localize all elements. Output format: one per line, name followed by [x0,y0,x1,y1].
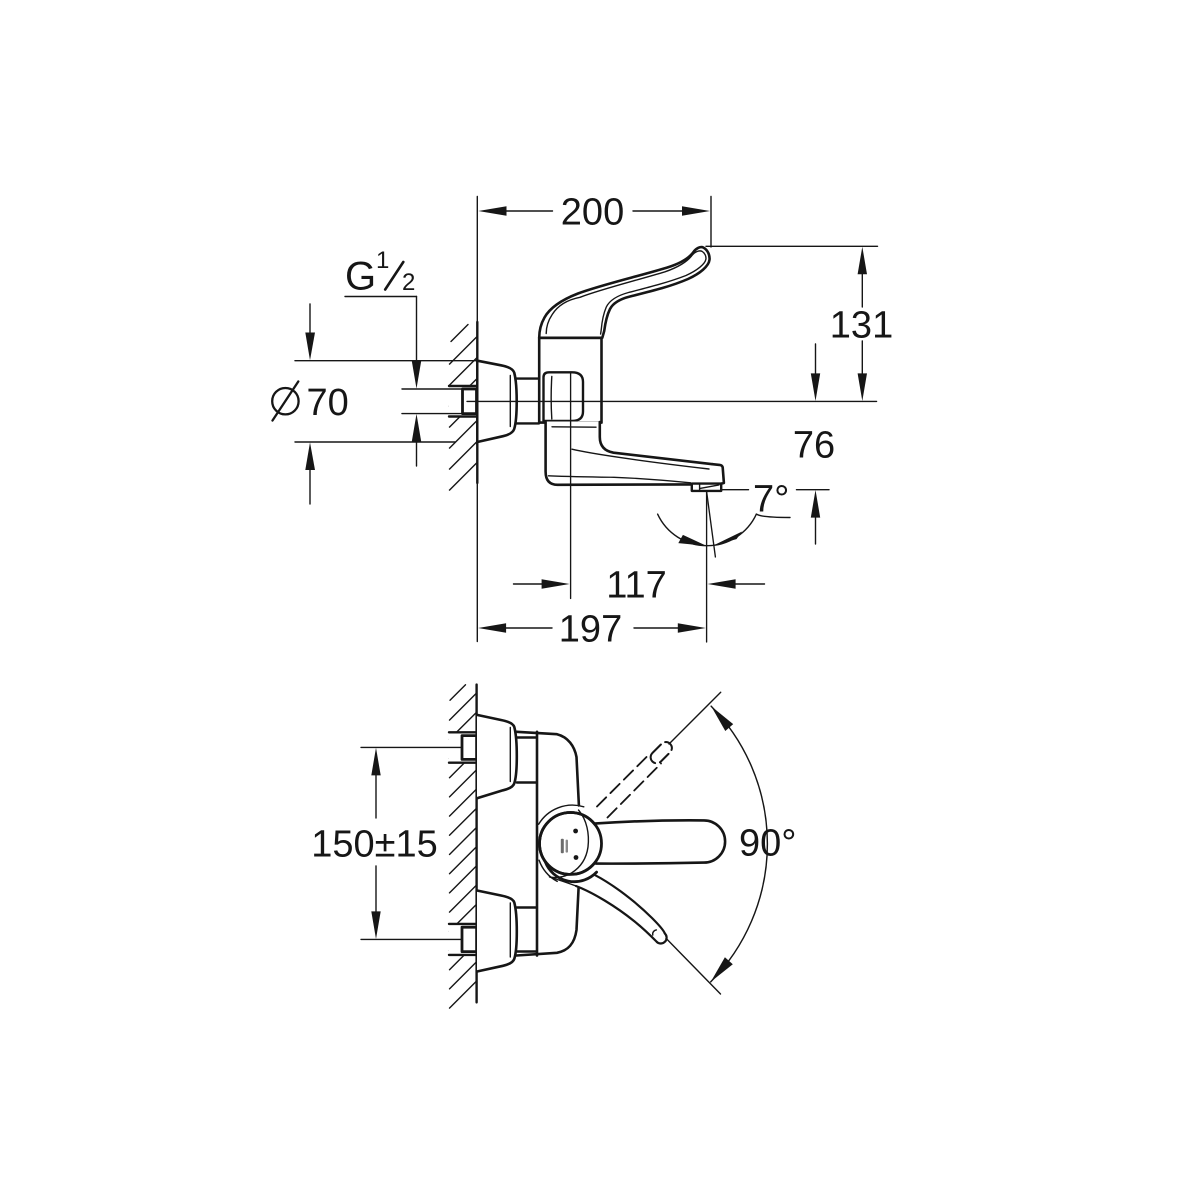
7deg angle arc [658,514,757,546]
escutcheon flange (side view) [477,361,516,442]
svg-text:150±15: 150±15 [311,824,438,866]
lower escutcheon [477,891,517,972]
cartridge ring (thin outer arcs) [539,805,584,824]
aerator inner lines [699,484,701,490]
G1/2 pipe stub [463,389,477,414]
90deg upper reference line [669,692,721,744]
GROHE logo micro-marks [561,839,564,854]
escutcheon front highlight [509,376,511,427]
dim 200: extension right [710,197,712,248]
leaf inner boundary [550,810,589,878]
blade lower edge [576,886,657,942]
svg-text:1: 1 [376,247,389,274]
handle lower front blob [544,372,584,421]
lever capsule (horizontal position) [594,820,725,863]
blade tip inner highlight [653,930,657,935]
dim 150±15 [375,775,377,818]
Ø70 text: diameter symbol [272,388,298,414]
lever blade (lowered position, fill) [550,875,667,944]
wall line bottom figure [475,685,477,1003]
faucet body (cartridge housing) [539,338,601,423]
lower inlet pipe [462,927,477,951]
dim 131: top reference line [706,245,878,247]
svg-text:90°: 90° [739,823,796,865]
upper union neck [517,736,537,738]
Ø70 dimension lines [295,360,477,362]
upper wall hole (white) [449,732,477,762]
wall hole top edge [449,385,477,387]
body (front view) [517,732,579,956]
pipe edge extension lines [402,388,462,390]
spout inner corner and top edge [600,422,713,464]
centerline [467,400,877,402]
90deg lower reference line [666,938,721,994]
svg-text:200: 200 [561,191,624,233]
svg-text:70: 70 [307,382,349,424]
dome (lever ball) [540,813,602,875]
blob inner highlight [550,377,553,420]
90deg arc arrowheads [711,706,733,731]
spout bottom highlight [549,476,691,483]
dome rim re-stroke [540,813,602,875]
lower wall hole (white) [449,924,477,955]
upper inlet pipe [462,736,477,760]
svg-text:197: 197 [559,608,622,650]
7deg tilted line [707,492,716,558]
spout shoulder thin line [552,426,596,428]
7deg outlet reference line [723,489,749,491]
svg-text:131: 131 [830,304,893,346]
150 extension lines [361,746,461,748]
Ø70 arrows [309,304,311,333]
wall line (thin extension part + thick wall part) [476,197,478,642]
svg-text:7°: 7° [753,478,789,520]
G1/2 leader underline [345,296,417,298]
117 extension line (valve axis) [570,373,572,599]
G1/2 leader drop + arrows [416,297,418,363]
svg-text:2: 2 [402,269,415,296]
7deg arc right tail [756,514,790,517]
lever inner contour line [546,251,706,334]
wall hatching bottom figure [450,685,477,1008]
dashed lever tip capsule [651,742,672,763]
svg-text:117: 117 [606,564,667,606]
lower union neck [517,906,537,908]
spout end face [713,464,724,483]
dim 117 [514,583,543,585]
wall line re-stroke over escutcheon root [476,358,478,444]
hot/cold dots [573,829,578,834]
aerator [692,484,721,491]
dim 200: arrows [478,206,506,215]
upper escutcheon [477,715,517,798]
blade tip [657,933,667,943]
7deg arc arrowheads [678,535,706,546]
wall hatching top figure [450,325,477,491]
spout left edge and underside [546,422,692,485]
lever handle (side view, outer outline) [539,247,709,338]
spout (side view) [546,422,724,485]
dim 197 [506,627,553,629]
union connector between escutcheon and body [517,379,540,424]
svg-text:76: 76 [793,424,835,466]
dashed lever (raised position) [597,754,650,807]
blade upper edge [595,875,665,934]
spout top highlight [572,449,709,469]
dim 131: shaft + arrows [861,274,863,307]
dim 76: shaft + arrows [815,344,817,374]
dim 200: dimension line [506,210,553,212]
90deg arc [711,706,768,982]
svg-text:G: G [345,255,376,299]
wall hole bottom edge [449,415,477,417]
117/197 right extension line (vertical, at outlet) [706,492,708,643]
wall mounting hole (white) [449,386,477,417]
dome lower rim re-stroke [545,862,596,882]
